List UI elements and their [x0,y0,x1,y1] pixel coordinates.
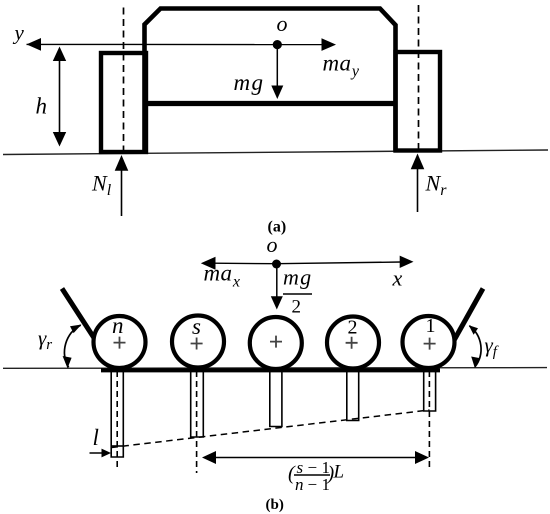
road wheel s [172,316,224,368]
right wheel [396,52,441,151]
svg-text:mg: mg [283,265,312,290]
svg-text:n: n [112,313,124,338]
road wheel middle [250,317,302,369]
ma_x arrow [213,262,277,265]
span dimension arrow [209,457,423,459]
svg-text:2: 2 [292,297,302,318]
wheel center cross s [191,338,203,350]
svg-text:n: n [295,475,304,494]
svg-text:L: L [333,462,345,483]
svg-text:Nr: Nr [425,171,448,200]
N_r arrow [417,167,419,212]
svg-text:Nl: Nl [91,171,112,200]
svg-text:y: y [13,20,25,44]
right ramp line [453,289,484,344]
mg/2 arrow (b) [276,264,278,297]
wheel center cross n [114,337,126,349]
dashed centerline wheel n [116,371,118,469]
vehicle body outline [145,9,396,153]
svg-text:o: o [267,232,278,257]
left wheel centerline [123,8,125,153]
road wheel pin middle [270,370,282,427]
svg-text:max: max [204,261,241,291]
ground line (b) [3,367,547,370]
wheel center cross middle [270,336,282,348]
angle arc gamma_r [65,325,81,367]
road wheel pin 2 [347,370,359,421]
dashed centerline wheel 1 [428,371,430,471]
left wheel [101,53,146,152]
svg-text:1: 1 [426,315,436,337]
h dimension arrow [59,49,61,144]
mg arrow (a) [276,45,278,86]
l pointer arrow [90,452,105,454]
svg-text:(b): (b) [266,497,284,513]
center of mass dot o (a) [273,40,282,49]
svg-text:mg: mg [234,70,265,95]
ground line (a) [3,150,548,155]
road wheel 1 [403,316,455,368]
chassis bar [143,101,398,106]
dashed slant line through pin bottoms [112,410,430,448]
y axis arrowhead [27,38,42,51]
svg-text:x: x [392,266,403,291]
angle arc gamma_f [469,326,481,367]
road wheel pin n [111,370,123,457]
svg-text:−: − [308,475,318,494]
center of mass dot o (b) [272,260,281,269]
svg-text:h: h [36,94,48,119]
track line (b) [101,368,440,372]
x axis arrow [277,262,402,264]
road wheel pin s [191,370,204,437]
right wheel centerline [418,5,420,151]
left ramp line [62,289,97,343]
wheel center cross 1 [424,338,436,350]
N_l arrow [121,168,123,216]
road wheel n [94,316,146,368]
svg-text:l: l [93,425,99,450]
svg-text:γf: γf [485,333,499,360]
svg-text:γr: γr [38,326,52,353]
dashed centerline wheel s [196,371,198,473]
svg-text:2: 2 [348,316,358,338]
y axis line [27,43,323,45]
road wheel 2 [327,317,379,369]
svg-text:o: o [277,11,288,36]
wheel center cross 2 [346,337,358,349]
ma_y arrowhead [322,38,337,51]
svg-text:s: s [192,314,201,339]
road wheel pin 1 [424,370,436,411]
svg-text:may: may [323,50,360,80]
